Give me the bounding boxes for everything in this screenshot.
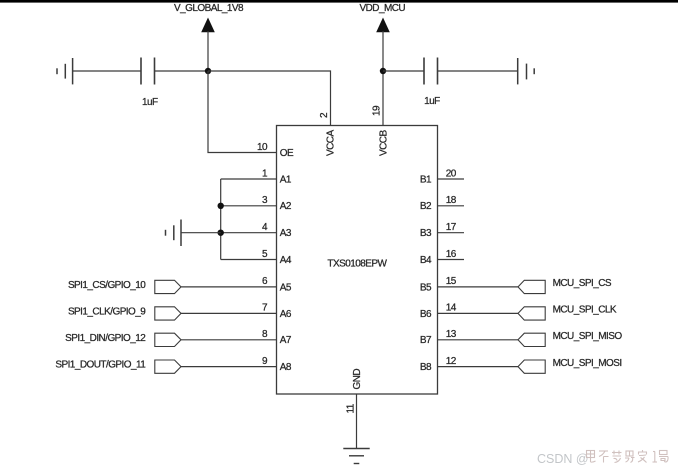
svg-text:15: 15 [446, 276, 457, 287]
pin B1 stub [437, 178, 464, 180]
svg-text:VDD_MCU: VDD_MCU [359, 3, 405, 14]
wire B5 to port [437, 286, 518, 288]
svg-text:B2: B2 [420, 201, 432, 212]
svg-text:A3: A3 [280, 228, 292, 239]
pin B4 stub [437, 259, 464, 261]
svg-text:A1: A1 [280, 174, 292, 185]
svg-text:SPI1_CLK/GPIO_9: SPI1_CLK/GPIO_9 [68, 306, 146, 317]
svg-text:CSDN @: CSDN @ [537, 452, 589, 466]
svg-text:A6: A6 [280, 309, 292, 320]
port SPI1_DOUT/GPIO_11 [55, 360, 181, 374]
wire node to VCCA pin 2 [208, 71, 331, 126]
wire bus to A4 [221, 259, 277, 261]
junction on A3 [218, 230, 224, 236]
capacitor C1 [141, 58, 155, 85]
svg-text:MCU_SPI_MISO: MCU_SPI_MISO [553, 331, 623, 342]
ground symbol (bottom) [343, 449, 369, 464]
svg-text:20: 20 [446, 168, 457, 179]
port SPI1_CLK/GPIO_9 [68, 306, 181, 320]
svg-text:16: 16 [446, 249, 457, 260]
port SPI1_DIN/GPIO_12 [65, 333, 181, 347]
wire ground to C1 [73, 70, 141, 72]
wire port to A5 [181, 286, 277, 288]
ground (sideways) at A3 [166, 220, 182, 247]
svg-text:MCU_SPI_CLK: MCU_SPI_CLK [553, 305, 617, 316]
svg-text:14: 14 [446, 303, 457, 314]
svg-text:B8: B8 [420, 362, 432, 373]
wire ground to A3 bus [182, 232, 221, 234]
wire node to C2 [383, 70, 424, 72]
port MCU_SPI_CLK [518, 305, 617, 320]
capacitor C2 [424, 58, 438, 85]
svg-text:18: 18 [446, 195, 457, 206]
svg-text:A2: A2 [280, 201, 292, 212]
svg-text:A8: A8 [280, 362, 292, 373]
pin B3 stub [437, 232, 464, 234]
wire port to A8 [181, 366, 277, 368]
svg-text:B3: B3 [420, 228, 432, 239]
svg-text:SPI1_CS/GPIO_10: SPI1_CS/GPIO_10 [68, 280, 146, 291]
svg-text:V_GLOBAL_1V8: V_GLOBAL_1V8 [174, 3, 244, 14]
svg-text:MCU_SPI_MOSI: MCU_SPI_MOSI [553, 358, 622, 369]
svg-text:10: 10 [257, 142, 268, 153]
svg-text:19: 19 [372, 105, 383, 116]
svg-text:A5: A5 [280, 282, 292, 293]
wire B8 to port [437, 366, 518, 368]
bus vertical A1-A4 [220, 179, 222, 260]
wire bus to A3 [221, 232, 277, 234]
wire node to OE pin 10 [208, 71, 277, 153]
ground (sideways) left of C1 [57, 58, 73, 84]
pin B2 stub [437, 205, 464, 207]
power symbol VDD_MCU (arrow) [376, 18, 390, 72]
svg-text:11: 11 [346, 403, 357, 413]
svg-text:B1: B1 [420, 174, 432, 185]
wire VDD node to VCCB pin 19 [382, 71, 384, 126]
svg-text:OE: OE [280, 148, 294, 159]
wire port to A6 [181, 312, 277, 314]
svg-text:SPI1_DIN/GPIO_12: SPI1_DIN/GPIO_12 [65, 333, 146, 344]
power symbol V_GLOBAL_1V8 (arrow) [201, 18, 215, 72]
svg-text:B4: B4 [420, 255, 432, 266]
node VDD_MCU junction [380, 68, 386, 74]
svg-text:VCCA: VCCA [326, 130, 337, 156]
wire port to A7 [181, 339, 277, 341]
svg-text:13: 13 [446, 329, 457, 340]
svg-text:B7: B7 [420, 335, 432, 346]
junction on A2 [218, 203, 224, 209]
wire bus to A1 [221, 178, 277, 180]
wire B6 to port [437, 312, 518, 314]
port MCU_SPI_MISO [518, 331, 622, 346]
svg-text:SPI1_DOUT/GPIO_11: SPI1_DOUT/GPIO_11 [55, 360, 146, 371]
wire B7 to port [437, 339, 518, 341]
svg-text:B5: B5 [420, 282, 432, 293]
svg-text:A7: A7 [280, 335, 292, 346]
svg-text:12: 12 [446, 356, 457, 367]
ground (sideways) right of C2 [518, 58, 535, 84]
IC U1 TXS0108EPW body [277, 126, 438, 395]
svg-text:GND: GND [352, 369, 363, 390]
svg-text:A4: A4 [280, 255, 292, 266]
wire C1 to V_GLOBAL_1V8 node [155, 70, 208, 72]
svg-text:17: 17 [446, 222, 457, 233]
node V_GLOBAL_1V8 junction [205, 68, 211, 74]
svg-text:1uF: 1uF [424, 96, 440, 107]
port MCU_SPI_MOSI [518, 358, 622, 373]
wire bus to A2 [221, 205, 277, 207]
port SPI1_CS/GPIO_10 [68, 280, 181, 294]
wire C2 to ground [438, 70, 518, 72]
watermark chinese glyph strokes [587, 450, 669, 463]
svg-text:VCCB: VCCB [379, 130, 390, 156]
port MCU_SPI_CS [518, 278, 612, 293]
wire GND pin to ground [356, 394, 358, 449]
svg-text:B6: B6 [420, 309, 432, 320]
svg-text:MCU_SPI_CS: MCU_SPI_CS [553, 278, 612, 289]
svg-text:1uF: 1uF [142, 97, 158, 108]
svg-text:TXS0108EPW: TXS0108EPW [327, 259, 387, 270]
